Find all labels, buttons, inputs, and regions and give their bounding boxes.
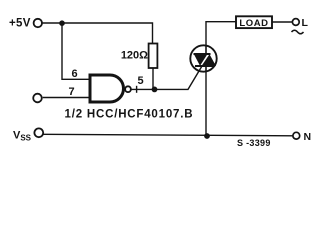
wire gate output pin 5 [131, 88, 155, 90]
terminal input pin 7 [33, 94, 42, 103]
wire triac gate [155, 66, 203, 89]
svg-text:+5V: +5V [9, 18, 31, 30]
bottom rail wire [43, 134, 293, 136]
wire resistor bottom [152, 68, 154, 89]
terminal N [293, 132, 300, 139]
svg-text:6: 6 [72, 68, 78, 80]
resistor R 120 ohm body [149, 44, 158, 69]
wire triac MT1 down [205, 72, 207, 136]
svg-text:N: N [304, 131, 312, 143]
NAND output bubble [125, 86, 131, 92]
triac TR1 [190, 45, 216, 72]
terminal L [292, 19, 299, 26]
junction dot bottom rail [204, 133, 210, 139]
terminal +5V [34, 19, 42, 27]
svg-text:L: L [302, 17, 309, 29]
svg-text:120Ω: 120Ω [121, 50, 148, 62]
svg-text:7: 7 [69, 86, 75, 98]
load box [236, 16, 272, 28]
svg-text:1/2 HCC/HCF40107.B: 1/2 HCC/HCF40107.B [65, 109, 194, 121]
svg-text:5: 5 [138, 75, 144, 87]
svg-text:S -3399: S -3399 [237, 138, 271, 148]
terminal VSS [34, 128, 43, 137]
pin 5 tick [136, 86, 138, 93]
svg-text:LOAD: LOAD [239, 18, 268, 29]
AC symbol tilde [292, 30, 304, 34]
wire load to terminal L [272, 21, 292, 23]
wire pin 6 branch [62, 23, 90, 79]
wire triac MT2 to load [206, 22, 236, 46]
junction dot output node [152, 87, 158, 93]
wire pin 7 input [43, 97, 90, 99]
junction dot on +5V rail [59, 20, 65, 26]
NAND gate U1 1/2 HCC/HCF40107B [90, 75, 124, 102]
wire +5V rail [42, 23, 152, 44]
